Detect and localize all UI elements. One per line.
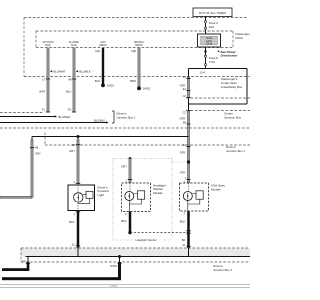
under-dash fuse/relay box dashed outline	[24, 18, 250, 77]
svg-text:BLU/WHT: BLU/WHT	[54, 69, 66, 73]
svg-text:Junction Box: Junction Box	[224, 115, 242, 119]
wire drop left exit	[0, 137, 41, 199]
wire middle lamp ground	[121, 212, 188, 235]
wire right lamp ground	[180, 211, 191, 248]
svg-text:GRY: GRY	[35, 151, 41, 155]
ground lead G501	[2, 255, 122, 280]
distribution wire	[32, 135, 189, 138]
svg-text:G402: G402	[143, 87, 151, 91]
svg-text:E1: E1	[183, 87, 187, 91]
ground G402	[137, 87, 150, 91]
svg-text:BLK: BLK	[121, 219, 126, 223]
svg-text:Distribution: Distribution	[221, 54, 238, 58]
center junction box	[186, 98, 250, 119]
wire W2 (small light right)	[66, 48, 91, 112]
svg-text:C7: C7	[42, 77, 46, 81]
node see power distribution	[204, 50, 237, 58]
wire from control unit to fuse 8	[205, 47, 207, 69]
left headlight lamp unit	[68, 185, 109, 216]
dashed junction boundary left	[0, 112, 44, 114]
svg-text:GRY: GRY	[180, 171, 186, 175]
svg-text:D4: D4	[68, 107, 72, 111]
svg-text:7.5A: 7.5A	[209, 60, 215, 64]
bracket driver's junction box 1	[112, 111, 136, 123]
svg-text:GRN: GRN	[100, 42, 105, 44]
svg-text:Models: Models	[211, 187, 221, 191]
svg-text:BLU/BLK: BLU/BLK	[80, 69, 91, 73]
label driver's junction box 1 right	[226, 145, 245, 153]
svg-text:10A: 10A	[209, 25, 214, 29]
svg-text:BLU/BLK: BLU/BLK	[94, 118, 105, 122]
svg-text:GRY: GRY	[180, 83, 186, 87]
wire right branch	[189, 69, 247, 105]
svg-text:BLU/WHT: BLU/WHT	[59, 115, 71, 119]
svg-text:GRY: GRY	[180, 151, 186, 155]
svg-text:MICU: MICU	[236, 36, 244, 40]
MICU output wires labels	[43, 42, 145, 47]
svg-text:B9: B9	[183, 121, 187, 125]
svg-text:G501: G501	[110, 264, 117, 268]
wire out left 1	[0, 115, 71, 119]
wire W1 (small light left)	[39, 48, 66, 112]
svg-text:Circuit: Circuit	[206, 43, 213, 46]
svg-text:GRY: GRY	[121, 164, 127, 168]
svg-text:BRN: BRN	[130, 79, 136, 83]
control unit U1 (small lights control circuit)	[198, 34, 221, 47]
ground G401	[101, 84, 114, 88]
pin labels on feed chain	[183, 75, 187, 180]
svg-text:C2: C2	[183, 94, 187, 98]
svg-text:A8: A8	[68, 77, 72, 81]
svg-text:HOT AT ALL TIMES: HOT AT ALL TIMES	[199, 11, 226, 15]
label passenger's under-dash fuse/relay box	[221, 77, 243, 89]
svg-text:B(24): B(24)	[45, 45, 51, 47]
wire color labels GRY	[180, 83, 186, 174]
power source box HOT AT ALL TIMES	[193, 8, 232, 17]
svg-text:GRY: GRY	[69, 149, 75, 153]
svg-text:B(12): B(12)	[71, 45, 77, 47]
ground lead left	[2, 257, 30, 272]
bottom junction box	[21, 248, 250, 272]
fuse F8	[204, 55, 218, 66]
fuse F2	[204, 21, 218, 30]
svg-text:17363: 17363	[110, 285, 118, 288]
svg-text:BLU: BLU	[66, 90, 71, 94]
svg-text:BRN/BLK: BRN/BLK	[134, 42, 144, 44]
svg-text:BRN/R: BRN/R	[135, 45, 142, 47]
long dashed line B	[45, 133, 250, 146]
svg-text:A(8): A(8)	[131, 49, 136, 53]
svg-text:A(6): A(6)	[95, 49, 100, 53]
connector ticks on feed chain	[187, 79, 191, 180]
wire left lamp ground	[69, 211, 80, 248]
svg-text:BLK: BLK	[95, 79, 100, 83]
svg-text:GRY: GRY	[180, 117, 186, 121]
svg-text:B4: B4	[182, 238, 186, 242]
MICU dashed box	[36, 31, 252, 48]
svg-text:Small: Small	[206, 38, 212, 40]
wire main feed chain	[187, 69, 189, 184]
svg-text:4B: 4B	[35, 146, 38, 150]
svg-text:Headlight Washer: Headlight Washer	[136, 238, 157, 242]
wire W4 ground gray	[130, 48, 140, 87]
svg-text:Models: Models	[153, 191, 163, 195]
wire feed middle lamp	[121, 159, 132, 184]
svg-text:Junction Box 1: Junction Box 1	[226, 149, 245, 153]
long dashed line A	[0, 127, 250, 129]
right lamp unit	[180, 179, 226, 215]
svg-text:C2: C2	[183, 111, 187, 115]
svg-text:WHT/GRN: WHT/GRN	[43, 42, 54, 44]
svg-text:BLK: BLK	[69, 220, 74, 224]
page border	[0, 285, 250, 288]
svg-text:WHT: WHT	[39, 90, 45, 94]
svg-text:Fuse/Relay Box: Fuse/Relay Box	[221, 85, 243, 89]
svg-text:Junction Box 1: Junction Box 1	[117, 115, 136, 119]
wire from power to fuse 2	[205, 17, 207, 35]
svg-text:Lights: Lights	[206, 40, 213, 43]
svg-text:BLU/RED: BLU/RED	[69, 42, 79, 44]
svg-text:Light: Light	[98, 193, 105, 197]
middle lamp unit (washer models)	[122, 183, 166, 216]
wire drop to left headlight	[69, 137, 80, 185]
svg-text:Junction Box 2: Junction Box 2	[213, 268, 232, 272]
svg-text:G401: G401	[107, 84, 115, 88]
svg-text:C8: C8	[72, 143, 76, 147]
headlight washer option dotted enclosure	[113, 157, 190, 242]
svg-text:BLK: BLK	[180, 219, 185, 223]
wire out left 2	[0, 118, 109, 123]
svg-text:13-A: 13-A	[200, 70, 206, 74]
wire bus split below fuse 8	[189, 68, 248, 70]
wire W3 ground black	[95, 48, 103, 84]
svg-text:BRN/B: BRN/B	[99, 45, 106, 47]
